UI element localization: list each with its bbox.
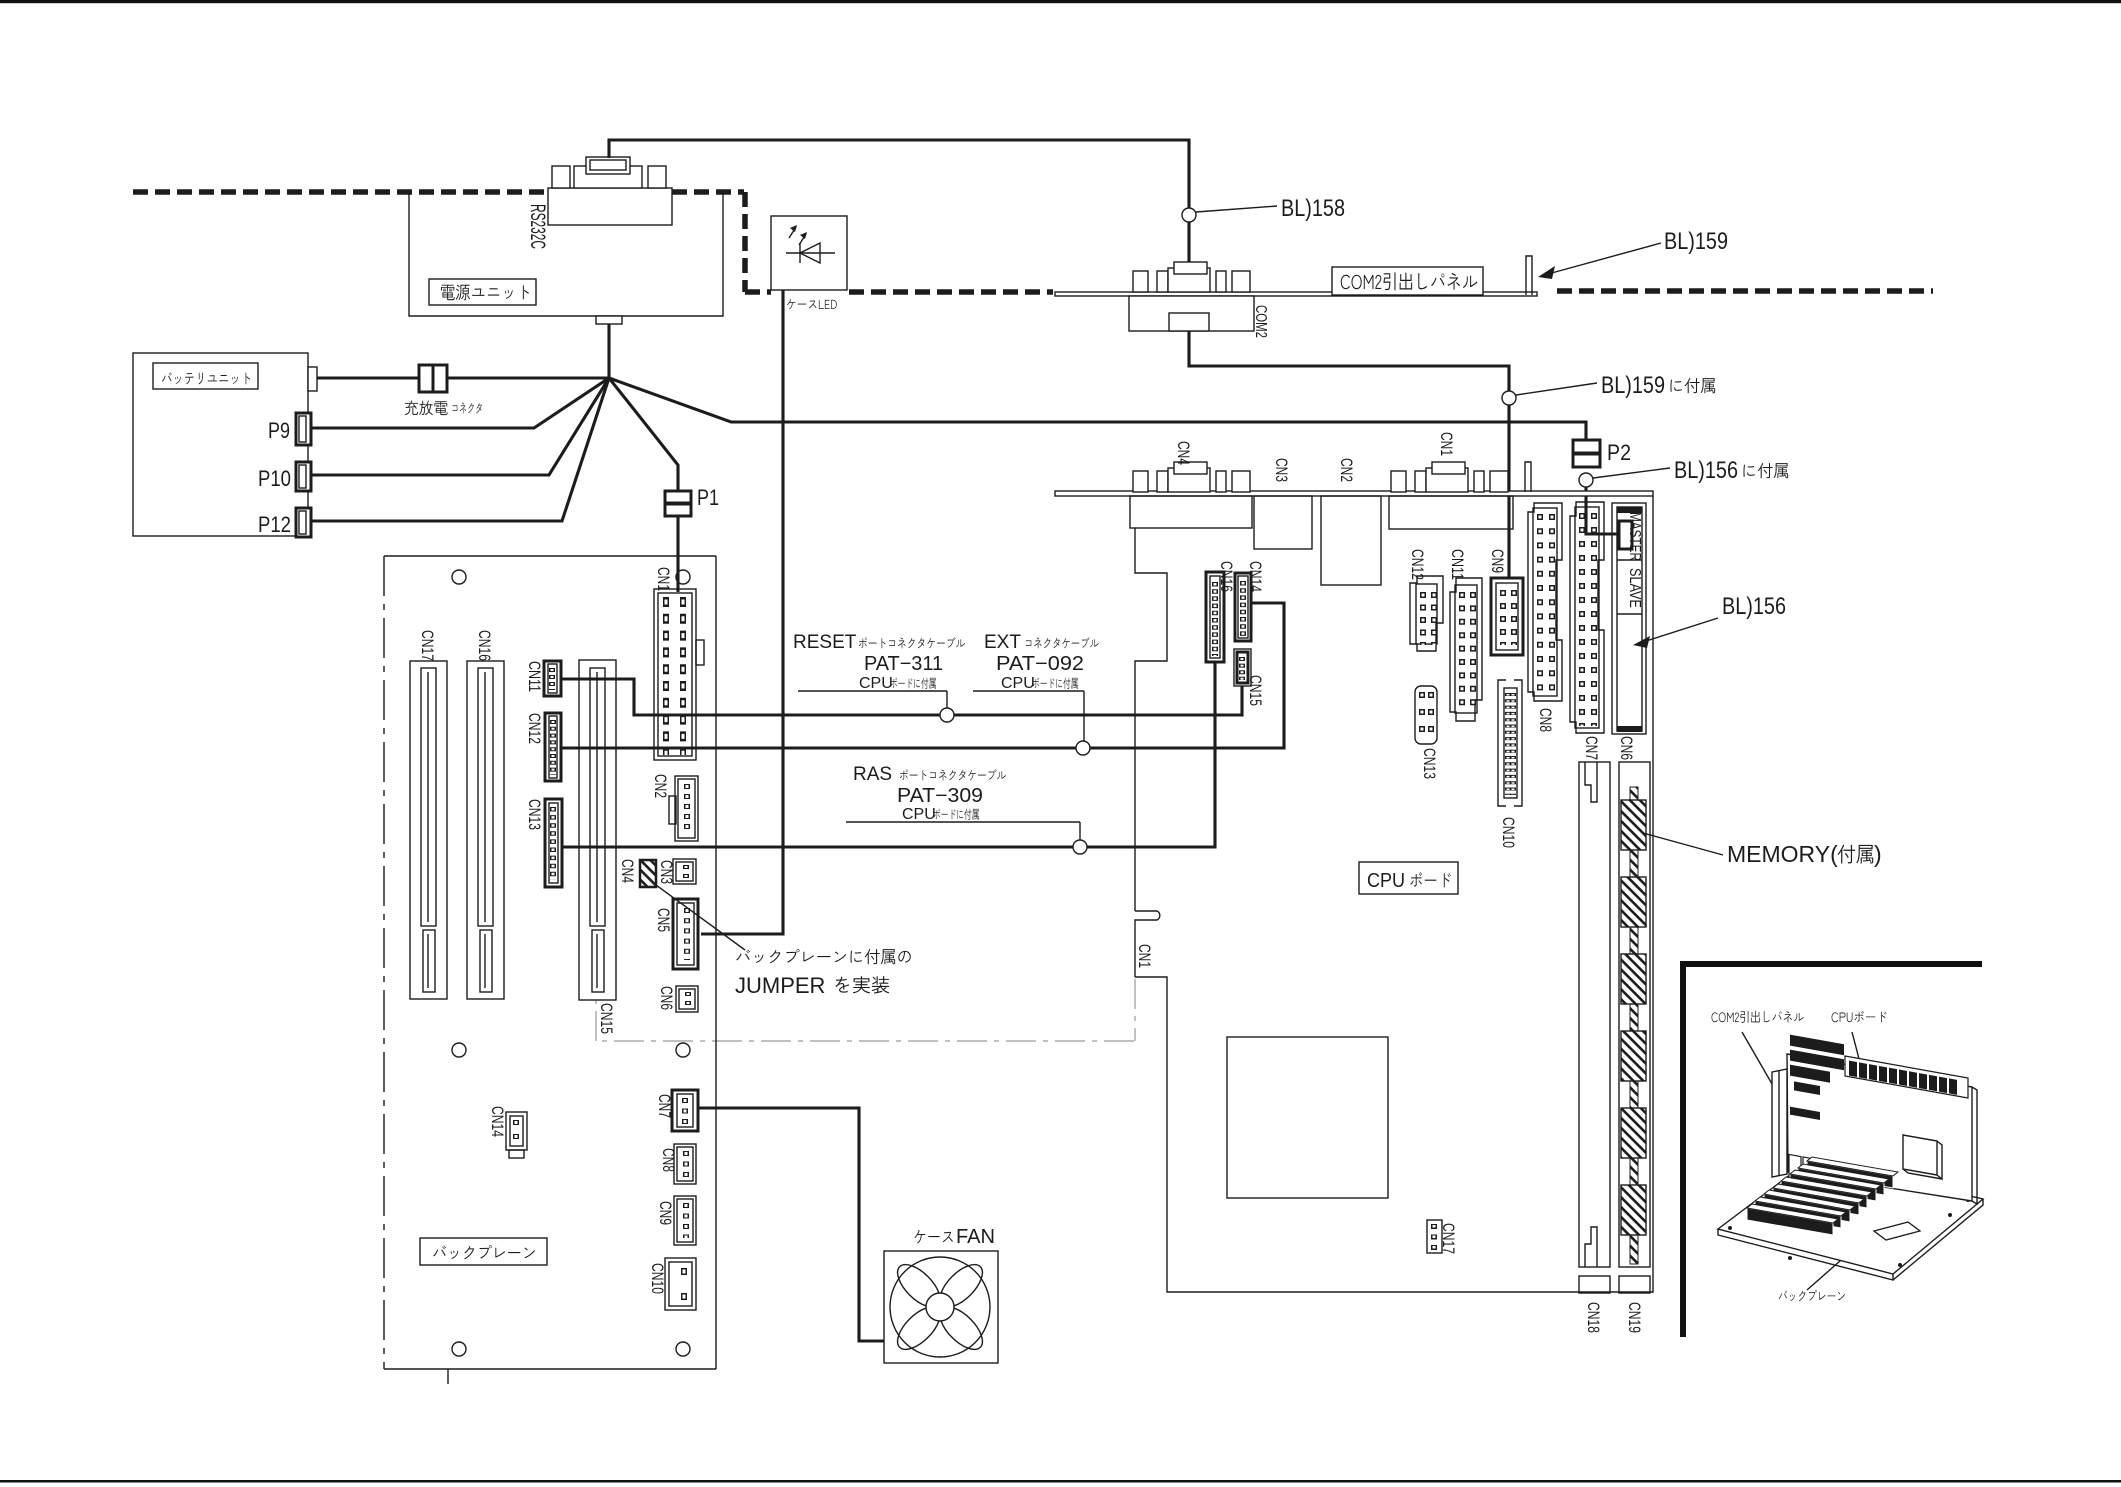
svg-text:BL)159: BL)159	[1601, 372, 1665, 399]
svg-text:PAT−309: PAT−309	[897, 785, 983, 807]
svg-text:JUMPER: JUMPER	[735, 973, 825, 998]
svg-text:): )	[1874, 841, 1882, 867]
svg-text:CN8: CN8	[659, 1148, 678, 1172]
svg-text:PAT−092: PAT−092	[996, 653, 1084, 675]
svg-text:CPU: CPU	[1367, 870, 1405, 892]
svg-text:CN9: CN9	[1488, 549, 1507, 573]
svg-text:FAN: FAN	[956, 1226, 995, 1248]
svg-text:P1: P1	[697, 485, 719, 510]
svg-text:CN11: CN11	[1448, 549, 1467, 580]
svg-text:CN15: CN15	[597, 1003, 616, 1034]
svg-text:RAS: RAS	[853, 764, 892, 785]
svg-text:BL)156: BL)156	[1722, 593, 1786, 620]
svg-text:CN8: CN8	[1536, 708, 1555, 732]
svg-text:CN14: CN14	[488, 1106, 507, 1137]
svg-text:P9: P9	[268, 418, 290, 443]
svg-text:CN10: CN10	[1499, 817, 1518, 848]
svg-text:CN1: CN1	[654, 567, 673, 591]
svg-text:CN5: CN5	[654, 908, 673, 932]
svg-text:CPU: CPU	[1001, 675, 1035, 692]
svg-text:CN9: CN9	[656, 1201, 675, 1225]
svg-text:CN7: CN7	[1582, 736, 1601, 760]
svg-text:CN2: CN2	[1337, 458, 1356, 482]
svg-text:P2: P2	[1607, 440, 1631, 465]
svg-text:CN14: CN14	[1246, 561, 1265, 592]
svg-text:RESET: RESET	[793, 632, 857, 653]
svg-text:MASTER: MASTER	[1626, 512, 1643, 561]
svg-text:CN2: CN2	[651, 774, 670, 798]
svg-text:CN1: CN1	[1135, 944, 1154, 968]
svg-text:EXT: EXT	[984, 632, 1021, 653]
svg-text:CN6: CN6	[1617, 736, 1636, 760]
svg-text:CN16: CN16	[475, 630, 494, 661]
svg-text:CN4: CN4	[1174, 441, 1193, 465]
svg-text:CN10: CN10	[648, 1263, 667, 1294]
svg-text:P10: P10	[258, 466, 291, 491]
svg-text:CN1: CN1	[1437, 432, 1456, 456]
svg-text:CN17: CN17	[1439, 1223, 1458, 1254]
svg-text:COM2: COM2	[1252, 305, 1269, 338]
svg-text:CN12: CN12	[525, 713, 544, 744]
svg-text:BL)159: BL)159	[1664, 228, 1728, 255]
svg-text:CPU: CPU	[902, 806, 936, 823]
svg-text:CN15: CN15	[1246, 675, 1265, 706]
svg-text:BL)156: BL)156	[1674, 457, 1738, 484]
svg-text:CPU: CPU	[859, 675, 893, 692]
svg-text:CN17: CN17	[418, 630, 437, 661]
svg-text:CN13: CN13	[1420, 748, 1439, 779]
svg-text:CN16: CN16	[1217, 561, 1236, 592]
svg-text:CN4: CN4	[618, 859, 637, 883]
svg-text:CN11: CN11	[525, 661, 544, 692]
svg-text:P12: P12	[258, 512, 291, 537]
svg-text:CN6: CN6	[657, 986, 676, 1010]
svg-text:MEMORY(: MEMORY(	[1727, 841, 1838, 867]
svg-text:BL)158: BL)158	[1281, 195, 1345, 222]
svg-text:PAT−311: PAT−311	[864, 653, 943, 675]
svg-text:CN13: CN13	[525, 799, 544, 830]
svg-text:CN19: CN19	[1625, 1302, 1644, 1333]
svg-text:CN7: CN7	[655, 1094, 674, 1118]
svg-text:CN12: CN12	[1408, 549, 1427, 580]
svg-text:CN18: CN18	[1584, 1302, 1603, 1333]
svg-text:SLAVE: SLAVE	[1626, 568, 1643, 608]
svg-text:RS232C: RS232C	[526, 204, 549, 249]
svg-text:CN3: CN3	[1272, 458, 1291, 482]
svg-text:CN3: CN3	[657, 860, 676, 884]
